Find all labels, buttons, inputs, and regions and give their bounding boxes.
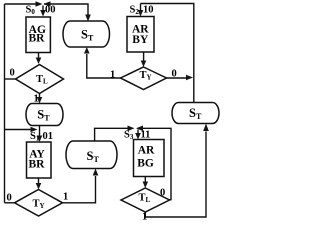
arrowhead down into S0 box [40,10,46,17]
wire TL1 zero branch [5,78,16,80]
conditional output oval ST3 [66,141,117,169]
wire S0 entry drop [42,6,44,11]
decision diamond TY2 [121,67,167,90]
arrowhead up into oval ST4 [203,124,209,132]
wire left riser [4,4,6,203]
svg-text:TY: TY [33,199,45,211]
conditional output oval ST1 [63,21,110,47]
wire oval ST2 exit to S1 entry [39,126,41,137]
svg-text:AR: AR [138,145,155,157]
wire TY1 zero branch [5,202,15,204]
arrowhead down into TL2 [143,182,149,189]
arrowhead down into TL1 [36,58,42,65]
svg-text:11: 11 [141,129,151,140]
arrowhead up into oval ST1 bottom [84,47,90,54]
wire TY2 zero branch to right riser [167,77,188,79]
wire S2 exit to TY2 [143,52,145,61]
svg-text:ST: ST [81,28,94,43]
arrowhead down into TY1 [36,183,42,190]
wire S1 feed from left riser [5,129,32,131]
svg-text:1: 1 [110,70,115,81]
decision diamond TL1 [16,65,64,94]
wire S3 junction to TL2 riser [139,128,171,199]
arrowhead down into TY2 [141,61,147,68]
arrowhead right into S3 junction [128,126,135,132]
arrowhead left into S0 junction [44,1,51,7]
wire TL1 one branch to oval ST2 [39,94,41,98]
svg-text:01: 01 [43,131,54,142]
svg-text:0: 0 [172,69,177,80]
wire oval ST4 exit to S2 entry [141,4,194,103]
svg-text:BY: BY [132,34,149,46]
svg-text:1: 1 [142,212,147,223]
svg-text:10: 10 [143,5,154,16]
state box S3 [134,140,165,177]
arrowhead right into S0 junction [36,1,43,7]
svg-text:0: 0 [160,188,165,199]
wire S1 exit to TY1 [38,178,40,184]
svg-text:S1: S1 [30,131,40,143]
svg-text:ST: ST [189,106,202,121]
wire S3 entry drop [137,130,139,134]
state box S1 [27,142,52,178]
svg-text:BR: BR [29,159,46,171]
svg-text:TL: TL [36,74,48,86]
wire S2 entry drop [140,4,142,11]
svg-text:S3: S3 [124,129,134,141]
arrowhead down into S2 box [138,10,144,17]
decision diamond TY1 [15,190,63,217]
conditional output oval ST4 [172,103,219,124]
arrowhead down into S3 box [135,133,141,140]
svg-text:ST: ST [87,149,100,164]
svg-text:TL: TL [139,192,151,204]
arrowhead down into oval ST1 top [85,15,91,22]
wire from oval ST1 top to S0 junction [44,4,88,15]
svg-text:ST: ST [37,108,50,123]
svg-text:1: 1 [63,192,68,203]
arrowhead up into oval ST3 [93,169,99,176]
decision diamond TL2 [121,188,170,212]
wire TY2 one branch to oval ST1 bottom [87,54,121,78]
wire S0 exit to TL1 [38,53,40,59]
wire oval ST3 exit to S3 junction [95,128,128,141]
svg-text:TY: TY [140,70,152,82]
arrowhead down into S1 box [37,136,43,143]
wire top-left feed into S0 junction [5,3,37,5]
svg-text:BR: BR [29,33,46,45]
svg-text:00: 00 [45,5,56,16]
wire TY1 one branch to oval ST3 [63,176,96,203]
svg-text:BG: BG [137,158,154,170]
svg-text:S0: S0 [26,5,36,17]
svg-text:0: 0 [7,193,12,204]
arrowhead right into right riser junction [186,75,193,81]
state box S0 [26,17,50,53]
arrowhead right into S1 junction [31,127,38,133]
conditional output oval ST2 [26,104,63,126]
arrowhead left into S3 junction [136,126,143,132]
wire S3 exit to TL2 [144,177,146,183]
svg-text:1: 1 [34,94,39,105]
wire TL2 one branch to oval ST4 bottom [145,132,206,218]
state box S2 [127,17,154,53]
svg-text:S2: S2 [130,5,140,17]
svg-text:0: 0 [10,68,15,79]
arrowhead down into oval ST2 [37,97,43,104]
